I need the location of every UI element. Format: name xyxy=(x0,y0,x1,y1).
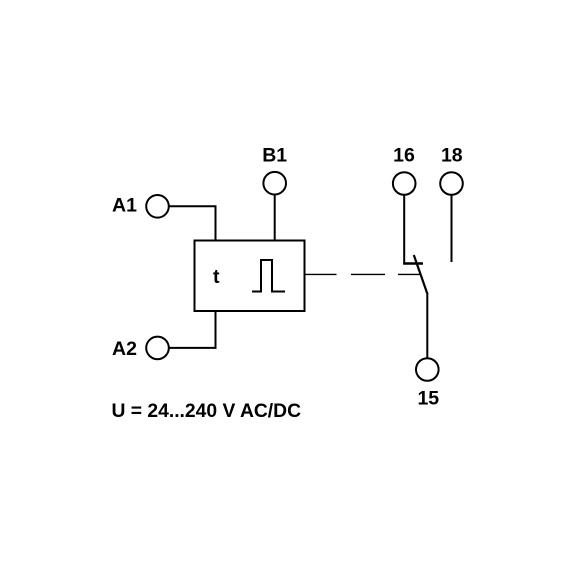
svg-text:18: 18 xyxy=(441,144,463,166)
svg-text:t: t xyxy=(213,266,220,288)
svg-text:U = 24...240 V AC/DC: U = 24...240 V AC/DC xyxy=(112,401,302,422)
svg-text:A2: A2 xyxy=(112,338,137,360)
svg-text:15: 15 xyxy=(417,388,439,410)
svg-text:B1: B1 xyxy=(262,144,287,166)
svg-text:A1: A1 xyxy=(112,195,137,217)
svg-text:16: 16 xyxy=(393,144,415,166)
